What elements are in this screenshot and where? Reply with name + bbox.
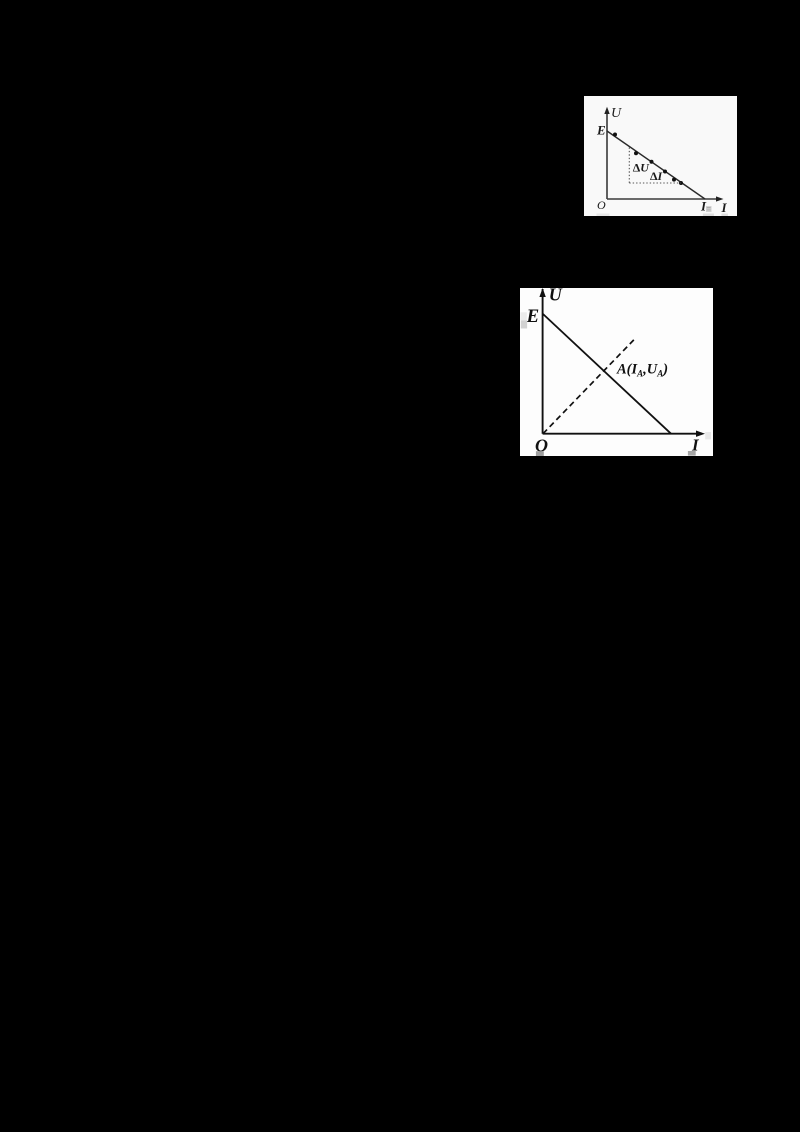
svg-text:I: I (700, 199, 707, 214)
svg-text:E: E (526, 306, 540, 327)
svg-text:O: O (597, 198, 606, 212)
svg-text:ΔU: ΔU (633, 161, 651, 175)
svg-text:E: E (596, 122, 606, 137)
svg-text:ΔI: ΔI (650, 169, 664, 183)
svg-text:U: U (611, 106, 622, 121)
svg-text:U: U (549, 288, 563, 305)
svg-text:I: I (721, 200, 728, 215)
